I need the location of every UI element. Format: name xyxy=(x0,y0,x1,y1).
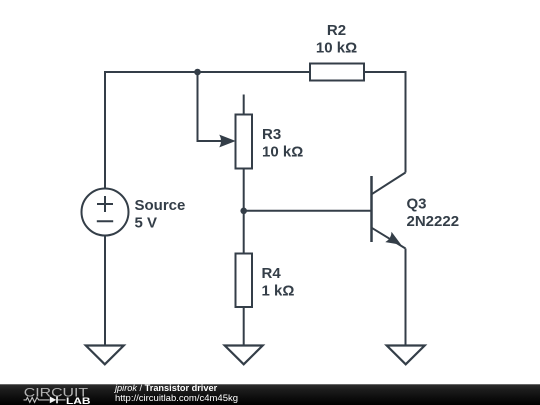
ground middle xyxy=(225,346,263,365)
footer credit text xyxy=(115,384,415,403)
Q3 emitter arrow xyxy=(385,232,401,245)
wire R3 pin 2 to base node xyxy=(243,169,245,211)
V1 circle body xyxy=(82,189,129,236)
ground right xyxy=(387,346,425,365)
transistor Q3 (NPN) xyxy=(372,173,406,249)
svg-text:2N2222: 2N2222 xyxy=(407,213,460,230)
svg-text:R4: R4 xyxy=(262,265,282,282)
node junction at base xyxy=(240,208,247,215)
R3 pin 1 top stub (unconnected) xyxy=(243,95,245,115)
Q3 emitter lead xyxy=(372,228,406,249)
Q3 collector lead xyxy=(372,173,406,195)
resistor R3 xyxy=(236,95,253,211)
svg-text:R3: R3 xyxy=(262,126,281,143)
V1 plus sign xyxy=(97,203,113,205)
R3 body xyxy=(236,115,253,169)
svg-text:10 kΩ: 10 kΩ xyxy=(262,143,303,160)
svg-text:5 V: 5 V xyxy=(135,215,158,232)
wire base node to R4 pin 1 xyxy=(243,211,245,254)
wiper arrowhead into R3 xyxy=(219,135,235,148)
wire R2 to collector corner xyxy=(364,72,406,173)
wire top rail to R2 xyxy=(198,71,311,73)
R4 body xyxy=(236,254,253,308)
svg-text:10 kΩ: 10 kΩ xyxy=(316,40,357,57)
svg-text:Source: Source xyxy=(135,197,186,214)
svg-text:LAB: LAB xyxy=(66,396,91,405)
svg-text:Q3: Q3 xyxy=(407,196,427,213)
CircuitLab logo xyxy=(0,384,100,405)
wire base xyxy=(244,210,371,212)
wire top-left vertical (source top to top rail) xyxy=(105,72,198,189)
resistor R4 xyxy=(236,211,253,345)
wire wiper from junction down and right to R3 xyxy=(198,72,223,141)
wire emitter to ground xyxy=(405,249,407,346)
wire R4 pin 2 to ground xyxy=(243,307,245,345)
voltage source V1 "Source" xyxy=(82,189,129,236)
svg-text:R2: R2 xyxy=(327,22,346,39)
Q3 base bar xyxy=(370,176,373,242)
svg-text:1 kΩ: 1 kΩ xyxy=(262,283,295,300)
resistor R2 xyxy=(310,64,364,81)
footer bar xyxy=(0,384,540,405)
node junction at top rail xyxy=(194,69,201,76)
ground left xyxy=(86,346,124,365)
V1 minus sign xyxy=(97,220,113,222)
wire source bottom to ground xyxy=(104,236,106,346)
